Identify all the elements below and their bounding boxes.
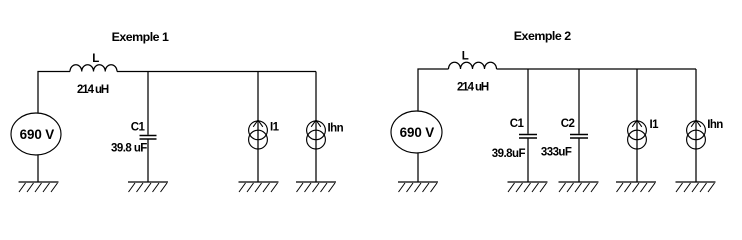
capacitor C1 (Exemple 1) bbox=[140, 136, 157, 140]
wire bbox=[117, 71, 316, 73]
voltage source 690 V (Exemple 2) bbox=[391, 111, 442, 153]
capacitor C1 (Exemple 2) bbox=[519, 135, 537, 139]
svg-text:C1: C1 bbox=[131, 121, 146, 133]
svg-text:39.8 uF: 39.8 uF bbox=[111, 142, 147, 154]
voltage source 690 V bbox=[11, 113, 61, 155]
wire bbox=[37, 155, 39, 182]
svg-text:Ihn: Ihn bbox=[707, 119, 723, 131]
ground (under source, Exemple 2) bbox=[398, 182, 438, 192]
svg-text:I1: I1 bbox=[270, 121, 280, 133]
svg-text:Ihn: Ihn bbox=[328, 122, 344, 134]
ground (under I1, Exemple 2) bbox=[616, 182, 656, 192]
svg-text:C1: C1 bbox=[510, 118, 525, 130]
svg-text:C2: C2 bbox=[561, 118, 575, 130]
svg-text:L: L bbox=[462, 51, 469, 63]
svg-text:39.8uF: 39.8uF bbox=[492, 148, 526, 160]
svg-text:214 uH: 214 uH bbox=[457, 82, 489, 94]
current source Ihn (Exemple 1) bbox=[307, 120, 326, 149]
ground (under source, Exemple 1) bbox=[19, 182, 59, 192]
wire bbox=[38, 72, 70, 114]
svg-text:214 uH: 214 uH bbox=[77, 84, 109, 96]
inductor L (Exemple 1) bbox=[70, 65, 117, 72]
wire bbox=[315, 72, 317, 183]
svg-text:L: L bbox=[92, 53, 99, 65]
ground (under C1, Exemple 2) bbox=[508, 182, 548, 192]
wire bbox=[418, 69, 449, 112]
wire bbox=[578, 69, 580, 134]
inductor L (Exemple 2) bbox=[449, 62, 497, 69]
ground (under C2, Exemple 2) bbox=[559, 182, 599, 192]
wire bbox=[527, 139, 529, 183]
wire bbox=[497, 68, 697, 70]
svg-text:333uF: 333uF bbox=[541, 147, 572, 159]
wire bbox=[695, 69, 697, 182]
svg-text:690 V: 690 V bbox=[400, 125, 435, 140]
wire bbox=[257, 72, 259, 183]
ground (under C1, Exemple 1) bbox=[128, 182, 168, 192]
wire bbox=[417, 153, 419, 182]
wire bbox=[147, 140, 149, 183]
ground (under Ihn, Exemple 1) bbox=[296, 182, 336, 192]
wire bbox=[527, 69, 529, 134]
wire bbox=[636, 69, 638, 182]
current source Ihn (Exemple 2) bbox=[687, 120, 706, 149]
wire bbox=[147, 72, 149, 135]
wire bbox=[578, 139, 580, 183]
svg-text:I1: I1 bbox=[650, 119, 660, 131]
svg-text:Exemple 1: Exemple 1 bbox=[112, 30, 169, 44]
ground (under I1, Exemple 1) bbox=[239, 182, 279, 192]
svg-text:Exemple 2: Exemple 2 bbox=[514, 29, 571, 43]
current source I1 (Exemple 2) bbox=[628, 120, 647, 149]
current source I1 (Exemple 1) bbox=[249, 120, 268, 149]
svg-text:690 V: 690 V bbox=[20, 127, 55, 142]
ground (under Ihn, Exemple 2) bbox=[676, 182, 716, 192]
capacitor C2 (Exemple 2) bbox=[570, 135, 588, 139]
